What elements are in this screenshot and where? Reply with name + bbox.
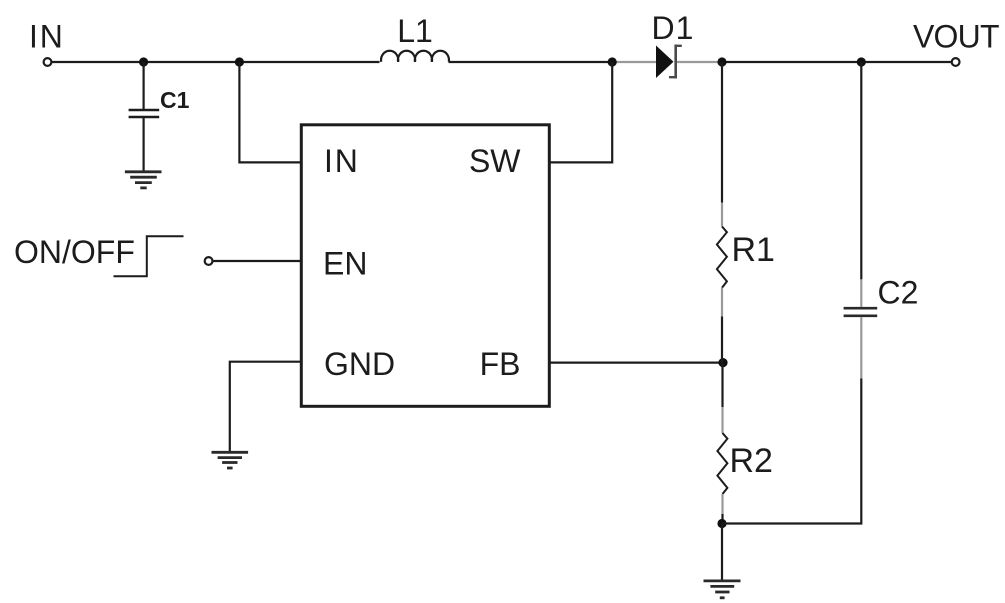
resistor R2 bbox=[717, 363, 727, 524]
wire GND pin bbox=[230, 362, 301, 452]
wire FB pin bbox=[549, 362, 723, 364]
node SW junction bbox=[608, 57, 617, 66]
capacitor C2 bbox=[844, 62, 878, 379]
svg-text:IN: IN bbox=[29, 19, 65, 55]
svg-text:R2: R2 bbox=[730, 442, 773, 480]
node IC-IN junction bbox=[235, 57, 244, 66]
wire IC IN pin bbox=[239, 62, 301, 162]
step waveform symbol bbox=[114, 236, 184, 276]
wire top rail left (IN to L1) bbox=[52, 61, 380, 63]
resistor R1 bbox=[717, 62, 727, 363]
node C2 junction bbox=[857, 57, 866, 66]
svg-text:C2: C2 bbox=[878, 275, 919, 311]
svg-text:FB: FB bbox=[480, 346, 521, 382]
svg-text:L1: L1 bbox=[397, 13, 433, 49]
svg-text:C1: C1 bbox=[160, 87, 190, 113]
ground (under R2) bbox=[704, 581, 741, 598]
ground (under GND pin) bbox=[212, 452, 249, 468]
op-amp U1 (IC box) bbox=[301, 125, 549, 407]
node diode-out junction bbox=[717, 57, 726, 66]
ground (under C1) bbox=[125, 172, 162, 188]
terminal EN bbox=[205, 257, 213, 265]
node C1 junction bbox=[139, 57, 148, 66]
terminal IN bbox=[44, 58, 52, 66]
svg-text:ON/OFF: ON/OFF bbox=[14, 234, 135, 270]
svg-text:GND: GND bbox=[324, 346, 395, 382]
wire L1 to SW node bbox=[449, 61, 613, 63]
inductor L1 bbox=[381, 51, 449, 62]
terminal VOUT bbox=[952, 58, 960, 66]
wire diode cathode lead (gray) bbox=[677, 61, 722, 63]
wire R2 node to ground bbox=[721, 524, 723, 581]
node FB junction bbox=[718, 358, 727, 367]
diode D1 bbox=[656, 45, 682, 79]
capacitor C1 bbox=[129, 62, 160, 171]
svg-text:SW: SW bbox=[469, 143, 521, 179]
svg-text:IN: IN bbox=[324, 143, 360, 179]
svg-text:R1: R1 bbox=[732, 231, 775, 269]
wire SW pin bbox=[549, 62, 612, 162]
node R2-C2 junction bbox=[717, 519, 726, 528]
wire bottom (R2 node to C2) bbox=[722, 379, 861, 524]
svg-text:EN: EN bbox=[323, 246, 367, 282]
wire diode anode lead (gray) bbox=[612, 61, 657, 63]
svg-text:VOUT: VOUT bbox=[913, 19, 999, 55]
svg-text:D1: D1 bbox=[652, 10, 695, 46]
wire EN pin bbox=[213, 260, 301, 262]
wire top rail right (to VOUT) bbox=[722, 61, 952, 63]
